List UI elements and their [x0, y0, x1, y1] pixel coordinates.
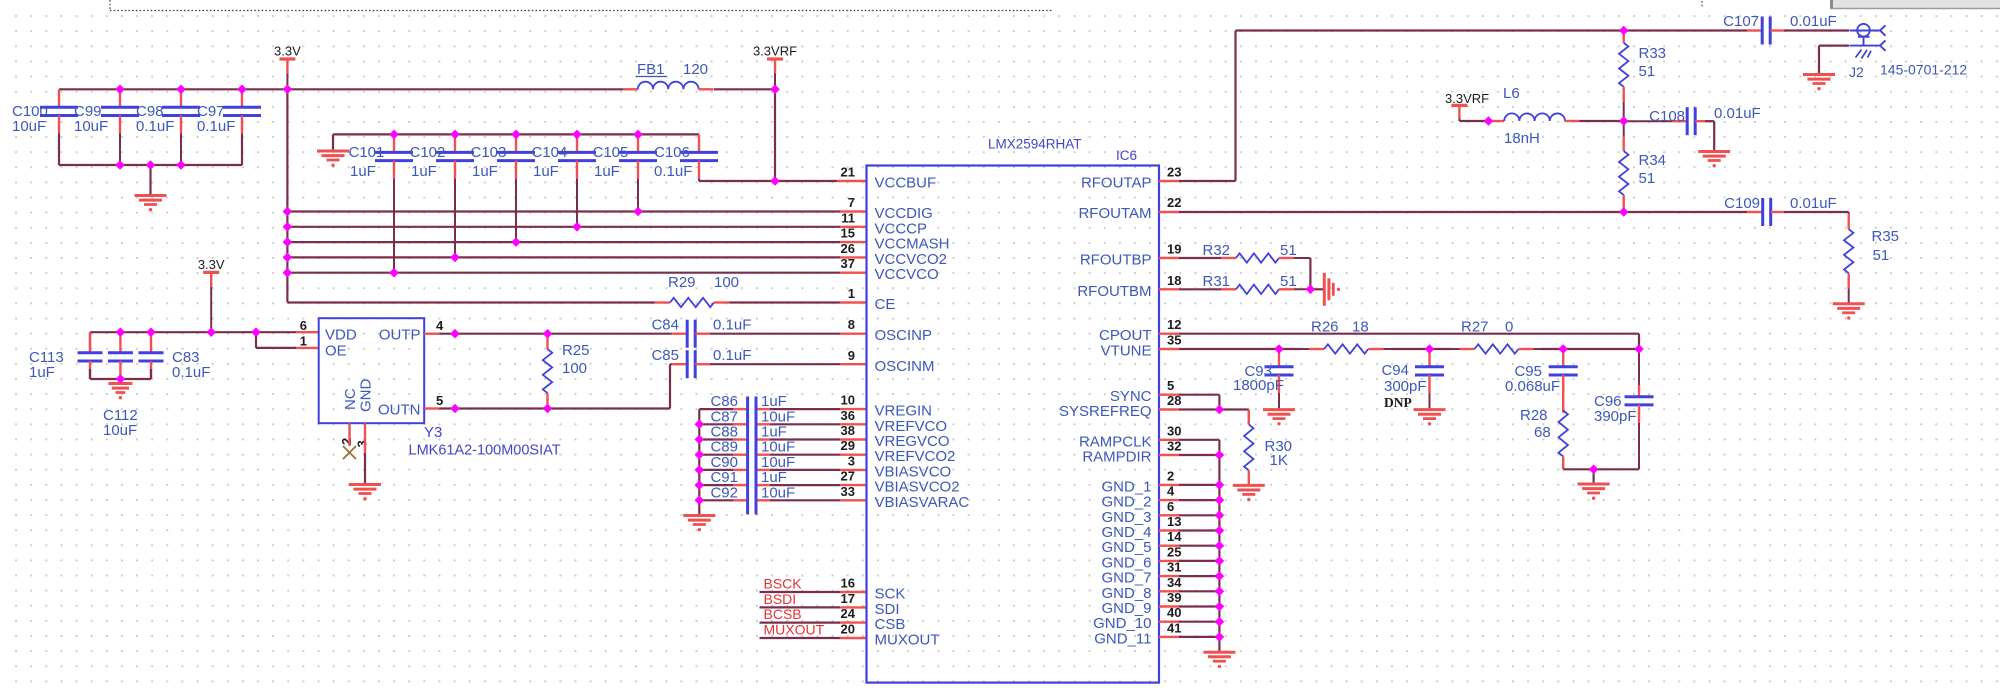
pin 40 GND_10 (right) [1093, 605, 1181, 632]
junction C89 bus [695, 450, 705, 460]
svg-text:BCSB: BCSB [764, 606, 802, 622]
pin 37 VCCVCO (left) [841, 256, 939, 283]
wire RFOUTAM line [1159, 211, 1747, 213]
junction GND_4 [1215, 526, 1225, 536]
svg-text:C85: C85 [651, 347, 679, 364]
svg-text:C104: C104 [532, 144, 568, 161]
svg-text:1K: 1K [1270, 452, 1288, 469]
wire VTUNE line seg1 [1159, 348, 1302, 350]
capacitor C109 0.01uF [1724, 195, 1837, 226]
svg-text:5: 5 [1167, 378, 1174, 393]
wire GND_9 stub [1159, 605, 1219, 607]
op-amp? main IC LMX2594RHAT box IC6 [867, 137, 1160, 683]
svg-text:10: 10 [841, 393, 855, 408]
svg-text:390pF: 390pF [1594, 408, 1637, 425]
svg-text:27: 27 [841, 469, 855, 484]
wire RAMPDIR [1159, 454, 1219, 456]
junction C93 [1274, 344, 1284, 354]
svg-text:300pF: 300pF [1384, 378, 1427, 395]
svg-text:R35: R35 [1872, 228, 1900, 245]
capacitor C103 [471, 134, 536, 242]
capacitor C92 10uF [699, 484, 866, 501]
capacitor C105 [593, 134, 658, 211]
pin 38 VREGVCO (left) [841, 423, 950, 450]
svg-text:0.1uF: 0.1uF [172, 364, 210, 381]
svg-text:5: 5 [436, 393, 443, 408]
svg-text:LMX2594RHAT: LMX2594RHAT [988, 137, 1082, 152]
capacitor C87 10uF [699, 408, 866, 425]
svg-text:20: 20 [841, 622, 855, 637]
wire R27-C95-corner [1541, 348, 1639, 350]
svg-text:8: 8 [848, 317, 855, 332]
svg-text:0.1uF: 0.1uF [713, 347, 751, 364]
junction C101 top [389, 130, 399, 140]
pin 12 CPOUT (right) [1099, 317, 1181, 344]
wire osc cap bottom rail [90, 369, 151, 379]
wire OUTP to C84 [424, 333, 670, 335]
svg-text:1uF: 1uF [472, 163, 498, 180]
wire GND_7 stub [1159, 575, 1219, 577]
pin number 2 (rotated) [339, 438, 354, 445]
svg-text:CE: CE [875, 296, 896, 313]
svg-text:51: 51 [1873, 247, 1890, 264]
resistor R25 100 [543, 334, 590, 409]
junction C95 [1558, 344, 1568, 354]
capacitor C102 [410, 134, 475, 257]
wire GND_6 stub [1159, 560, 1219, 562]
pin 34 GND_8 (right) [1101, 575, 1182, 602]
svg-text:FB1: FB1 [637, 61, 665, 78]
svg-text:3.3V: 3.3V [274, 44, 301, 59]
oscillator Y3 LMK61A2-100M00SIAT [319, 318, 561, 458]
wire C86-C92 left bus [698, 409, 700, 515]
junction bus VCCVCO [283, 268, 293, 278]
svg-text:OUTN: OUTN [378, 402, 421, 419]
pin 25 GND_6 (right) [1101, 544, 1181, 571]
wire C85 to OSCINM [710, 363, 867, 365]
toolbar fragment (top-right gray bar) [1830, 0, 2000, 9]
pin number 1 [300, 334, 307, 349]
power 3.3V (top-left) [274, 44, 301, 90]
junction 3.3V stem [206, 327, 216, 337]
svg-text:1800pF: 1800pF [1233, 377, 1284, 394]
ground below R30 [1233, 485, 1265, 501]
capacitor C100 [12, 89, 78, 135]
svg-text:100: 100 [562, 360, 587, 377]
svg-text:0.01uF: 0.01uF [1790, 195, 1837, 212]
svg-text:RFOUTBM: RFOUTBM [1077, 283, 1151, 300]
pin 35 VTUNE (right) [1101, 333, 1182, 360]
junction SYNC/SYSREFREQ [1215, 405, 1225, 415]
ground below C86-C92 bus [683, 516, 715, 532]
pin 1 CE (left) [848, 286, 896, 313]
svg-text:C103: C103 [471, 144, 507, 161]
pin number 3 (rotated) [355, 440, 370, 447]
pin 3 VBIASVCO (left) [848, 453, 951, 480]
capacitor C108 0.01uF [1624, 105, 1761, 135]
svg-text:51: 51 [1639, 170, 1656, 187]
wire C106 to pin21 [699, 180, 867, 182]
junction on 3.3V rail at bus [283, 85, 293, 95]
wire SYSREFREQ [1159, 410, 1249, 425]
svg-text:15: 15 [841, 226, 855, 241]
svg-text:RFOUTAP: RFOUTAP [1081, 175, 1152, 192]
pin 31 GND_7 (right) [1101, 560, 1181, 587]
junction C91 bus [695, 480, 705, 490]
junction GND_10 [1215, 617, 1225, 627]
svg-text:C84: C84 [651, 317, 679, 334]
pin 18 RFOUTBM (right) [1077, 273, 1181, 300]
svg-text:RFOUTAM: RFOUTAM [1078, 205, 1151, 222]
wire bottom rail of C100-C97 [59, 134, 242, 165]
junction C99 top [115, 85, 125, 95]
capacitor C84 0.1uF [651, 317, 751, 348]
wire VDD rail [90, 331, 319, 333]
svg-text:SYSREFREQ: SYSREFREQ [1059, 403, 1152, 420]
capacitor C113 [29, 332, 103, 381]
svg-text:C107: C107 [1723, 13, 1759, 30]
resistor R35 51 [1844, 212, 1899, 304]
wire VCCCP line [287, 226, 866, 228]
svg-text:10uF: 10uF [12, 118, 46, 135]
svg-text:1: 1 [848, 286, 855, 301]
pin number 4 [436, 318, 444, 333]
svg-text:MUXOUT: MUXOUT [875, 632, 940, 649]
resistor R27 0 [1452, 319, 1541, 354]
junction C98 bottom [176, 160, 186, 170]
svg-text:10uF: 10uF [74, 118, 108, 135]
svg-text:R28: R28 [1520, 407, 1548, 424]
pin 6 GND_3 (right) [1101, 499, 1174, 526]
junction GND_8 [1215, 587, 1225, 597]
junction C105 bottom [633, 207, 643, 217]
svg-text:VCCVCO: VCCVCO [875, 266, 939, 283]
svg-text:RFOUTBP: RFOUTBP [1080, 252, 1152, 269]
no-connect X on Y3 pin 2 [343, 423, 356, 459]
svg-text:1uF: 1uF [350, 163, 376, 180]
capacitor C95 0.068uF [1505, 349, 1578, 395]
junction bus VCCVCO2 [283, 253, 293, 263]
junction C112 top [116, 327, 126, 337]
capacitor C89 10uF [699, 439, 866, 456]
power 3.3VRF (L6) [1445, 91, 1489, 121]
junction C101 bottom [389, 268, 399, 278]
wire osc cap top rail [89, 332, 91, 352]
svg-text:0.068uF: 0.068uF [1505, 378, 1560, 395]
junction R33 top [1619, 26, 1629, 36]
junction C103 top [511, 130, 521, 140]
wire CPOUT line [1159, 334, 1639, 349]
power 3.3VRF (top) [753, 44, 797, 90]
wire VCC vertical bus [286, 89, 288, 302]
pin 11 VCCCP (left) [841, 210, 927, 237]
svg-text:0.01uF: 0.01uF [1714, 105, 1761, 122]
junction OUTN a [450, 404, 460, 414]
svg-text:RAMPDIR: RAMPDIR [1082, 449, 1151, 466]
junction C102 top [450, 130, 460, 140]
svg-text:68: 68 [1534, 424, 1551, 441]
wire C107 to J2 [1784, 29, 1849, 31]
pin 36 VREFVCO (left) [841, 408, 947, 435]
svg-text:LMK61A2-100M00SIAT: LMK61A2-100M00SIAT [409, 443, 561, 459]
wire Y3 pin3 to ground [349, 423, 381, 500]
wire VCCVCO line [287, 272, 866, 274]
wire OE branch [256, 332, 319, 348]
junction VCCBUF line [770, 176, 780, 186]
junction bus VCCMASH [283, 237, 293, 247]
svg-text:R27: R27 [1461, 319, 1489, 336]
svg-text:VDD: VDD [325, 327, 357, 344]
svg-text:R31: R31 [1203, 273, 1231, 290]
capacitor C86 1uF [699, 393, 866, 410]
svg-text:MUXOUT: MUXOUT [764, 622, 825, 638]
wire VCCVCO2 line [287, 256, 866, 258]
svg-text:0.1uF: 0.1uF [654, 163, 692, 180]
resistor R29 100 [655, 274, 740, 307]
wire 3.3VRF down to VCCBUF [774, 89, 776, 181]
svg-text:18: 18 [1352, 319, 1369, 336]
svg-text:18: 18 [1167, 273, 1181, 288]
svg-text:C102: C102 [410, 144, 446, 161]
svg-text:C94: C94 [1381, 362, 1409, 379]
junction C103 bottom [511, 237, 521, 247]
svg-text:2: 2 [1167, 468, 1174, 483]
junction gnd stem [146, 160, 156, 170]
svg-text:7: 7 [848, 195, 855, 210]
junction OUTP R25 [543, 329, 553, 339]
wire SYNC [1159, 395, 1219, 410]
resistor R33 51 [1619, 31, 1666, 122]
svg-text:BSDI: BSDI [764, 591, 797, 607]
svg-text:L6: L6 [1503, 85, 1520, 102]
svg-text:24: 24 [841, 606, 856, 621]
junction C90 bus [695, 465, 705, 475]
wire OUTN [424, 364, 670, 408]
pin 23 RFOUTAP (right) [1081, 165, 1182, 192]
sheet border (dotted, top-left) [110, 0, 1702, 11]
ground below loop filter [1578, 469, 1610, 500]
svg-text:BSCK: BSCK [764, 576, 803, 592]
junction bottom ground [1589, 465, 1599, 475]
pin 8 OSCINP (left) [848, 317, 932, 344]
wire GND_5 stub [1159, 545, 1219, 547]
svg-text:38: 38 [841, 423, 855, 438]
svg-text:J2: J2 [1849, 64, 1864, 80]
capacitor C107 0.01uF [1723, 13, 1837, 45]
wire GND_10 stub [1159, 621, 1219, 623]
pin 28 SYSREFREQ (right) [1059, 393, 1182, 420]
svg-text:1: 1 [300, 334, 307, 349]
wire GND_4 stub [1159, 529, 1219, 531]
wire RAMPCLK [1159, 440, 1219, 455]
junction GND_2 [1215, 495, 1225, 505]
svg-text:12: 12 [1167, 317, 1181, 332]
junction C105 top [633, 130, 643, 140]
junction R34 bottom [1619, 207, 1629, 217]
svg-text:1uF: 1uF [594, 163, 620, 180]
svg-text:0.01uF: 0.01uF [1790, 13, 1837, 30]
junction L6/R33/R34/C108 [1619, 116, 1629, 126]
junction GND_7 [1215, 571, 1225, 581]
svg-text:C106: C106 [654, 144, 690, 161]
junction GND_11 [1215, 632, 1225, 642]
svg-text:OUTP: OUTP [379, 327, 421, 344]
wire R32 to R31 join [1309, 258, 1311, 289]
junction bus VCCCP [283, 222, 293, 232]
resistor R34 51 [1619, 121, 1666, 212]
svg-text:DNP: DNP [1384, 395, 1412, 410]
svg-text:R33: R33 [1639, 45, 1667, 62]
junction C94 [1425, 344, 1435, 354]
svg-text:4: 4 [436, 318, 444, 333]
svg-text:17: 17 [841, 591, 855, 606]
wire R28/C96 bottom [1563, 460, 1639, 469]
junction OE branch [251, 327, 261, 337]
pin number 5 [436, 393, 443, 408]
capacitor C97 [197, 89, 261, 165]
connector J2 145-0701-212 [1849, 24, 1967, 80]
svg-text:9: 9 [848, 348, 855, 363]
junction C104 bottom [572, 222, 582, 232]
svg-text:51: 51 [1280, 273, 1297, 290]
pin 2 GND_1 (right) [1101, 468, 1174, 495]
wire C84 to OSCINP [710, 333, 867, 335]
svg-text:36: 36 [841, 408, 855, 423]
svg-text:C108: C108 [1649, 108, 1685, 125]
junction OUTN R25 [543, 404, 553, 414]
svg-text:30: 30 [1167, 423, 1181, 438]
pin 20 MUXOUT (left) [841, 622, 940, 649]
junction C92 bus [695, 496, 705, 506]
svg-text:100: 100 [714, 274, 739, 291]
svg-text:51: 51 [1639, 63, 1656, 80]
resistor R32 51 [1159, 242, 1310, 263]
svg-text:11: 11 [841, 210, 855, 225]
ground (rotated) RFOUTB [1324, 273, 1340, 306]
ground below C94 [1414, 410, 1446, 426]
pin 41 GND_11 (right) [1094, 620, 1181, 647]
svg-text:GND_11: GND_11 [1094, 630, 1151, 647]
svg-text:R32: R32 [1203, 242, 1231, 259]
svg-text:Y3: Y3 [424, 424, 442, 441]
pin 13 GND_4 (right) [1101, 514, 1181, 541]
wire R26-C94 [1391, 348, 1452, 350]
pin 5 SYNC (right) [1110, 378, 1174, 405]
capacitor C99 [74, 89, 139, 165]
svg-text:2: 2 [339, 438, 354, 445]
pin 4 GND_2 (right) [1101, 484, 1175, 511]
svg-text:0.1uF: 0.1uF [136, 118, 174, 135]
resistor R31 51 [1159, 273, 1310, 294]
wire J2 shield to ground [1803, 46, 1849, 91]
junction R31/R32 [1306, 285, 1316, 295]
svg-text:3.3VRF: 3.3VRF [753, 44, 797, 59]
svg-text:OSCINP: OSCINP [875, 327, 933, 344]
ferrite bead FB1 [623, 61, 714, 89]
wire RFOUTAP to top [1159, 31, 1747, 182]
svg-text:10uF: 10uF [761, 484, 795, 501]
capacitor C94 300pF DNP [1381, 349, 1444, 410]
pin 26 VCCVCO2 (left) [841, 241, 948, 268]
svg-text:VTUNE: VTUNE [1101, 343, 1152, 360]
junction GND_3 [1215, 511, 1225, 521]
pin 10 VREGIN (left) [841, 393, 932, 420]
pin 14 GND_5 (right) [1101, 529, 1182, 556]
junction GND_6 [1215, 556, 1225, 566]
pin 17 SDI (left) [841, 591, 900, 618]
capacitor C88 1uF [699, 424, 866, 441]
svg-text:1uF: 1uF [533, 163, 559, 180]
wire net BSDI [760, 606, 867, 608]
svg-text:C109: C109 [1724, 195, 1760, 212]
junction corner CPOUT/VTUNE [1634, 344, 1644, 354]
capacitor C93 1800pF [1233, 349, 1294, 410]
svg-text:3.3V: 3.3V [198, 257, 225, 272]
ground below C93 [1263, 410, 1295, 426]
pin 29 VREFVCO2 (left) [841, 438, 956, 465]
wire net BSCK [760, 591, 867, 593]
wire GND_1 stub [1159, 484, 1219, 486]
svg-text:OE: OE [325, 343, 347, 360]
junction osc gnd [116, 374, 126, 384]
pin 15 VCCMASH (left) [841, 226, 950, 253]
svg-text:C101: C101 [349, 144, 385, 161]
svg-text:C92: C92 [710, 484, 738, 501]
inductor L6 18nH [1489, 85, 1624, 147]
capacitor C112 [103, 332, 138, 439]
pin 9 OSCINM (left) [848, 348, 935, 375]
pin 24 CSB (left) [841, 606, 906, 633]
wire GND column [1218, 455, 1220, 652]
svg-text:VBIASVARAC: VBIASVARAC [875, 494, 970, 511]
svg-text:0.1uF: 0.1uF [197, 118, 235, 135]
pin number 6 [300, 318, 307, 333]
net label BSDI [764, 591, 797, 607]
svg-text:OSCINM: OSCINM [875, 358, 935, 375]
wire net MUXOUT [760, 637, 867, 639]
ground below R35 [1833, 304, 1865, 320]
junction GND_1 [1215, 480, 1225, 490]
wire GND_11 stub [1159, 636, 1219, 638]
resistor R30 1K [1244, 410, 1292, 486]
svg-text:26: 26 [841, 241, 855, 256]
svg-text:37: 37 [841, 256, 855, 271]
pin 16 SCK (left) [841, 576, 906, 603]
svg-text:3: 3 [355, 440, 370, 447]
capacitor C83 [139, 332, 211, 381]
junction RAMPDIR [1215, 450, 1225, 460]
wire 3.3V rail [59, 88, 775, 90]
power 3.3V (oscillator) [198, 257, 225, 332]
ground below C112 [108, 384, 132, 400]
svg-text:1uF: 1uF [29, 364, 55, 381]
svg-text:GND: GND [358, 379, 375, 413]
junction bus VCCDIG [283, 207, 293, 217]
svg-text:33: 33 [841, 484, 855, 499]
capacitor C96 390pF [1594, 349, 1654, 469]
pin 30 RAMPCLK (right) [1079, 423, 1182, 450]
svg-text:C105: C105 [593, 144, 629, 161]
pin 19 RFOUTBP (right) [1080, 242, 1182, 269]
svg-text:145-0701-212: 145-0701-212 [1880, 62, 1967, 78]
pin 27 VBIASVCO2 (left) [841, 469, 960, 496]
svg-text:18nH: 18nH [1504, 130, 1540, 147]
pin 21 VCCBUF (left) [841, 165, 937, 192]
junction OUTP a [450, 329, 460, 339]
svg-text:3.3VRF: 3.3VRF [1445, 91, 1489, 106]
wire GND_2 stub [1159, 499, 1219, 501]
svg-text:0.1uF: 0.1uF [713, 317, 751, 334]
